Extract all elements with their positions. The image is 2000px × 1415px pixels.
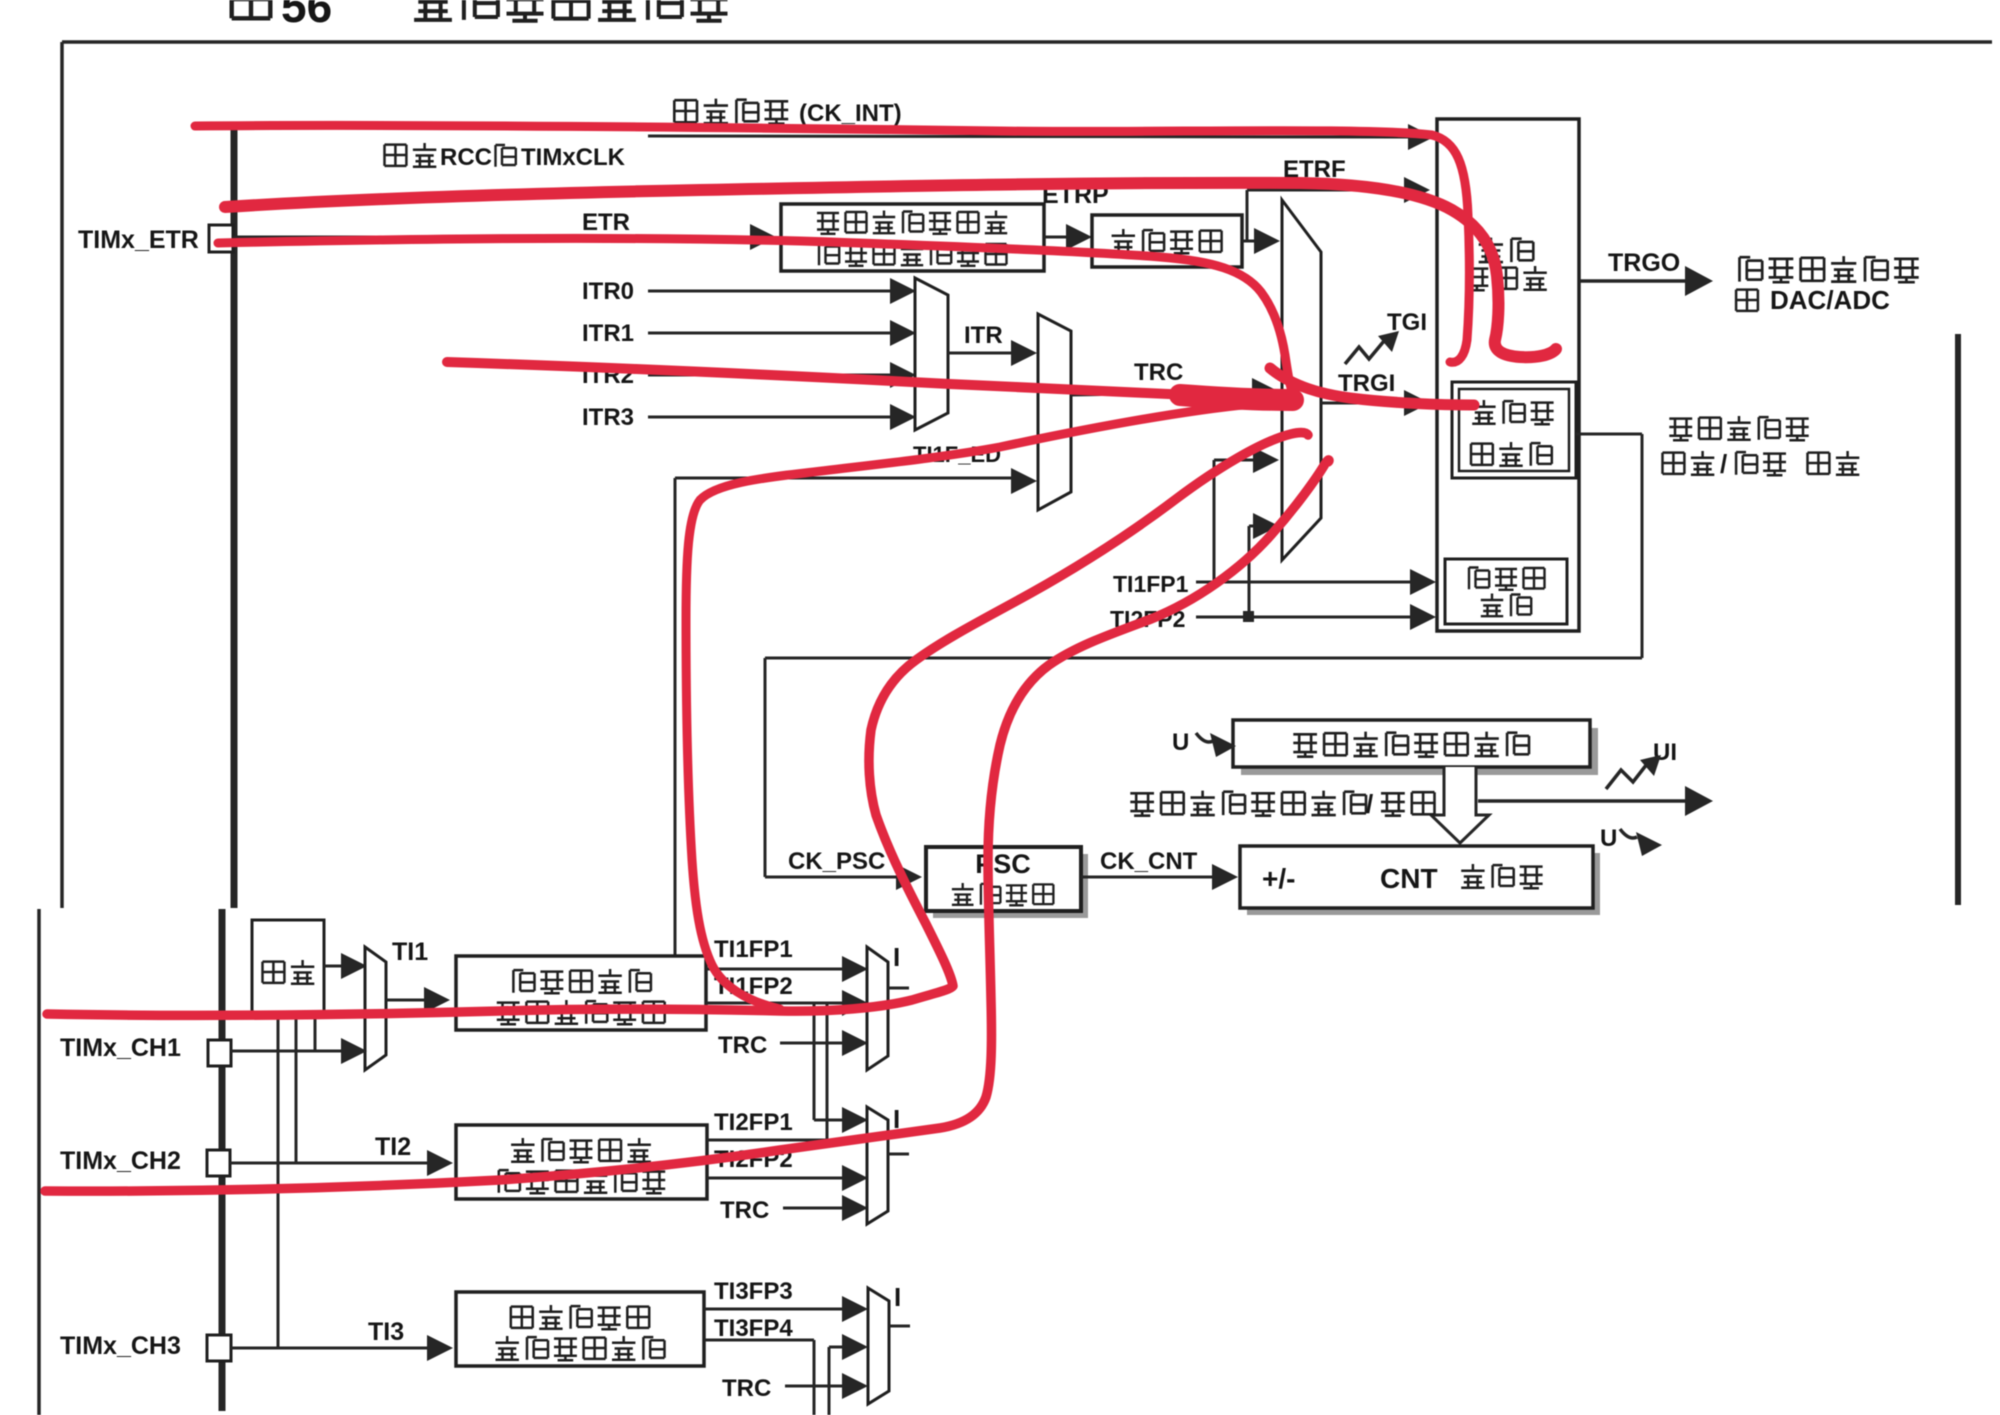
diagram outer border (top section) xyxy=(62,40,1992,44)
wire TRC xyxy=(1071,392,1253,395)
svg-text:(CK_INT): (CK_INT) xyxy=(799,100,902,127)
svg-text:TRGO: TRGO xyxy=(1608,249,1680,277)
wire ITR2 xyxy=(648,374,891,377)
svg-text:TGI: TGI xyxy=(1387,309,1427,336)
svg-text:RCC: RCC xyxy=(440,144,492,171)
wire CH1 xyxy=(231,1050,342,1053)
wire TI2FP2 to encoder xyxy=(1196,616,1410,619)
red stroke over ITR2/TRC xyxy=(447,362,1190,395)
label 复位、使能、向上/向下、计数 xyxy=(1669,419,1692,441)
wire TRC (CH2) xyxy=(783,1207,843,1210)
block CH1 input filter & edge detector 输入滤波器和边沿检测器 xyxy=(456,956,706,1030)
wire ETRF xyxy=(1247,189,1404,192)
red stroke continuing to slave mode controller xyxy=(1270,368,1474,405)
wire crossover vertical B xyxy=(826,1003,829,1140)
block encoder interface 编码器接口 xyxy=(1445,559,1567,624)
wire TI1 to filter xyxy=(386,999,424,1002)
block CH3 input filter & edge detector xyxy=(456,1292,704,1366)
wire TI2FP2 riser to mux xyxy=(1248,526,1251,617)
svg-text:TRC: TRC xyxy=(720,1197,769,1224)
wire U event to right xyxy=(1478,799,1686,803)
wire CH2 xyxy=(230,1162,427,1165)
svg-text:TI1: TI1 xyxy=(392,938,428,966)
svg-text:DAC/ADC: DAC/ADC xyxy=(1770,285,1890,315)
pad TIMx_CH1 xyxy=(208,1040,231,1066)
wire crossover vertical A xyxy=(813,1003,816,1120)
input pin bus (top section) xyxy=(231,130,238,908)
block CH2 input filter & edge detector xyxy=(456,1125,707,1199)
wire CK_CNT xyxy=(1081,876,1212,879)
wire ETRP xyxy=(1044,236,1066,239)
svg-text:+/-: +/- xyxy=(1262,863,1295,894)
wire TI4FP3 up (cut) xyxy=(828,1347,831,1415)
wire TRGO xyxy=(1579,279,1686,283)
wire XOR input riser to CH2 xyxy=(295,1014,298,1163)
svg-text:I: I xyxy=(894,1282,901,1312)
mux CH3 capture input xyxy=(868,1288,889,1404)
red stroke from CH1 filter up to TRGI (S curve) xyxy=(47,433,1308,1016)
svg-text:CK_PSC: CK_PSC xyxy=(788,848,885,875)
label 来自RCC的TIMxCLK xyxy=(385,145,407,166)
svg-text:TIMx_CH3: TIMx_CH3 xyxy=(60,1332,181,1360)
red stroke over ETR line xyxy=(218,238,1294,396)
pad TIMx_CH3 xyxy=(207,1335,231,1361)
mux ITR/TI1F_ED select xyxy=(1038,314,1071,510)
red stroke over CK_INT line xyxy=(195,125,1469,362)
hollow update arrow to counter xyxy=(1431,767,1489,843)
wire TRGI xyxy=(1321,402,1404,405)
wire ITR1 xyxy=(648,332,891,335)
block trigger controller 触发控制器 xyxy=(1437,119,1579,631)
wire CK_PSC arrow xyxy=(765,876,896,879)
svg-text:TRC: TRC xyxy=(718,1032,767,1059)
svg-text:ITR3: ITR3 xyxy=(582,404,634,431)
svg-text:CK_CNT: CK_CNT xyxy=(1100,848,1198,875)
wire ITR3 xyxy=(648,416,891,419)
wire XOR output xyxy=(324,965,342,968)
label 停止、清除或向上/向下 xyxy=(1130,793,1154,815)
svg-text:ITR: ITR xyxy=(964,322,1003,349)
svg-text:TRC: TRC xyxy=(1134,359,1183,386)
mux CH1 capture input xyxy=(867,947,888,1070)
mux ITR select xyxy=(915,278,948,430)
svg-text:TIMx_CH1: TIMx_CH1 xyxy=(60,1034,181,1062)
wire ITR0 xyxy=(648,290,891,293)
wire TI3FP4 down xyxy=(704,1339,814,1342)
label 至其它定时器 / 至 DAC/ADC xyxy=(1740,257,1763,281)
svg-text:U: U xyxy=(1172,729,1189,756)
wire TRC (CH1) xyxy=(780,1042,843,1045)
svg-text:TI1FP1: TI1FP1 xyxy=(1113,571,1189,597)
wire TI1FP1 to encoder xyxy=(1196,581,1410,584)
svg-text:TI2: TI2 xyxy=(375,1133,411,1161)
block counter CNT 计数器 (+/-) xyxy=(1247,853,1600,915)
wire IC2 stub xyxy=(888,1153,909,1156)
junction TI2FP2 xyxy=(1243,611,1254,622)
block XOR 异或 xyxy=(252,920,324,1014)
wire TI3FP3 xyxy=(704,1308,843,1311)
wire TI1FP1 (channel) xyxy=(706,968,843,971)
red stroke big loop via TI1F_ED xyxy=(686,404,1252,1009)
wire TI1FP1 riser to mux xyxy=(1213,460,1216,582)
mux trigger input select (big) xyxy=(1282,200,1321,560)
block slave mode controller 从模式控制器 xyxy=(1452,382,1576,478)
block auto-reload register 自动重装载寄存器 (with shadow) xyxy=(1241,728,1598,775)
wire filter to mux xyxy=(1242,240,1254,243)
wire IC3 stub xyxy=(889,1325,910,1328)
wire slave ctrl to prescaler (CK_PSC loop) xyxy=(1576,433,1642,436)
svg-text:TI3FP3: TI3FP3 xyxy=(714,1278,793,1305)
svg-text:ITR1: ITR1 xyxy=(582,320,634,347)
wire TI1FP2 (channel) xyxy=(706,1002,843,1005)
wire ETR xyxy=(233,236,750,239)
mux CH2 capture input xyxy=(867,1107,888,1224)
svg-text:TI3: TI3 xyxy=(368,1318,404,1346)
svg-text:TIMxCLK: TIMxCLK xyxy=(521,144,626,171)
red stroke from CH2 filter up to TRGI (S curve) xyxy=(45,460,1329,1191)
figure title (cut off): 图56 通用定时器框图 xyxy=(232,0,271,18)
wire ETRF riser xyxy=(1246,190,1249,241)
block input filter 输入滤波 xyxy=(1092,215,1242,267)
svg-text:ETR: ETR xyxy=(582,209,630,236)
wire TI1F_ED xyxy=(675,477,1012,480)
block polarity select / edge detect / prescaler 极性选择、边沿检测和预分频器 xyxy=(781,204,1044,271)
block prescaler PSC 预分频器 (with shadow) xyxy=(933,854,1088,918)
svg-text:CNT: CNT xyxy=(1380,863,1438,894)
svg-text:U: U xyxy=(1600,825,1617,852)
pad TIMx_CH2 xyxy=(207,1150,230,1176)
input pin bus (bottom section) xyxy=(219,909,226,1411)
svg-text:TRC: TRC xyxy=(722,1375,771,1402)
svg-text:56: 56 xyxy=(281,0,332,32)
svg-text:TIMx_CH2: TIMx_CH2 xyxy=(60,1147,181,1175)
svg-text:ITR0: ITR0 xyxy=(582,278,634,305)
mux TI1 select xyxy=(365,947,386,1070)
wire ITR xyxy=(948,352,1012,355)
wire CH2 to crossover xyxy=(707,1139,827,1142)
diagram left border (bottom pasted section) xyxy=(37,909,41,1415)
svg-text:TI3FP4: TI3FP4 xyxy=(714,1315,793,1342)
wire CK_INT xyxy=(648,136,1409,137)
wire XOR input riser to CH1 xyxy=(314,1014,317,1051)
svg-text:/: / xyxy=(1366,789,1373,819)
svg-text:TIMx_ETR: TIMx_ETR xyxy=(78,226,199,254)
label 内部时钟 (CK_INT) xyxy=(674,100,697,122)
wire TI1F_ED riser from CH1 filter xyxy=(674,478,677,956)
wire TI2FP2 (channel) xyxy=(707,1177,843,1180)
red stroke over ETRF line (thick) xyxy=(225,183,1556,357)
wire XOR input riser to CH3 xyxy=(277,1014,280,1348)
svg-text:TI2FP1: TI2FP1 xyxy=(714,1109,793,1136)
right edge vertical line xyxy=(1955,334,1961,905)
wire IC1 stub xyxy=(888,987,909,990)
svg-text:/: / xyxy=(1720,449,1727,479)
wire TI2FP1 (channel) xyxy=(814,1119,843,1122)
svg-text:I: I xyxy=(893,942,900,972)
pad TIMx_ETR xyxy=(209,225,233,252)
wire TRC (CH3) xyxy=(785,1385,843,1388)
red blob where strokes merge xyxy=(1180,395,1293,400)
wire CH3 xyxy=(231,1347,427,1350)
svg-text:TI1FP1: TI1FP1 xyxy=(714,936,793,963)
